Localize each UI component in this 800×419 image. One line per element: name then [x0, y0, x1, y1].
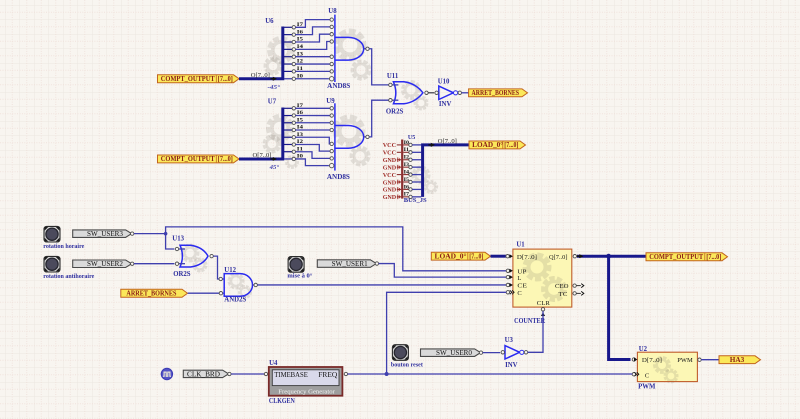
svg-text:[7...0]: [7...0] — [218, 156, 233, 163]
U7 tap I7 — [284, 103, 304, 110]
port SW_USER1 — [317, 260, 376, 268]
port LOAD_0[7..0] (output) — [469, 141, 526, 149]
pwm block U2 — [632, 346, 701, 382]
svg-text:CLR: CLR — [537, 300, 551, 307]
counter U1 — [506, 241, 584, 316]
power net VCC at U5 pin I1 — [383, 150, 402, 157]
bus O[7..0] from U5 to LOAD_0 port — [423, 143, 469, 197]
bus O[7..0] from lower COMPT_OUTPUT port to U7 — [239, 108, 283, 162]
wire U7 I3 to U9 pin 5 — [296, 137, 331, 144]
svg-text:VCC: VCC — [383, 142, 397, 149]
svg-text:[7...0]: [7...0] — [218, 76, 233, 83]
svg-text:ARRET_BORNES: ARRET_BORNES — [126, 291, 176, 298]
push button rotation antihoraire — [44, 256, 60, 272]
wire U4 FREQ output to U2 C and counter C — [344, 372, 632, 375]
svg-text:CEO: CEO — [555, 283, 569, 290]
wire U7 I4 to U9 pin 4 — [296, 129, 331, 131]
wire U9 output to U11 input B — [369, 100, 389, 137]
port SW_USER3 — [73, 230, 132, 238]
port SW_USER0 — [421, 349, 481, 357]
U6 tap I1 — [284, 66, 304, 73]
port COMPT_OUTPUT[7..0] (output, right) — [646, 253, 728, 261]
counter U1 body fill — [513, 249, 572, 307]
svg-text:AND8S: AND8S — [327, 174, 350, 181]
push button rotation horaire — [44, 226, 60, 242]
svg-text:INV: INV — [505, 362, 518, 369]
power net VCC at U5 pin I0 — [383, 142, 402, 149]
svg-text:U9: U9 — [326, 98, 335, 105]
U5 pin I5 — [403, 177, 421, 184]
bus counter Q to COMPT_OUTPUT port and down to U2 — [577, 254, 646, 360]
power net VCC at U5 pin I4 — [383, 172, 402, 179]
svg-text:bouton reset: bouton reset — [391, 361, 424, 368]
svg-text:mise à 0°: mise à 0° — [287, 272, 312, 279]
svg-text:U10: U10 — [438, 78, 450, 85]
port CLK_BRD — [183, 370, 228, 378]
U7 tap I3 — [284, 132, 304, 139]
watermark gears behind U11 — [401, 80, 429, 111]
power net GND at U5 pin I5 — [383, 179, 402, 186]
U7 tap I5 — [284, 117, 304, 124]
svg-text:D[7..0]: D[7..0] — [517, 254, 537, 261]
svg-text:GND: GND — [383, 194, 397, 201]
and gate U8 AND8S — [327, 8, 369, 90]
frequency generator U4 CLKGEN — [269, 360, 343, 396]
watermark gears behind U8 — [334, 29, 372, 81]
svg-text:COMPT_OUTPUT: COMPT_OUTPUT — [649, 254, 703, 261]
wire U6 I6 to U8 pin 2 — [296, 27, 331, 35]
bus O[7..0] from upper COMPT_OUTPUT port to U6 — [239, 27, 283, 81]
svg-text:Q[7..0]: Q[7..0] — [549, 254, 568, 261]
U6 tap I4 — [284, 44, 304, 51]
svg-text:U7: U7 — [268, 99, 277, 106]
pwm U2 body fill — [637, 352, 697, 381]
svg-text:U13: U13 — [172, 236, 184, 243]
U6 tap I6 — [284, 29, 304, 36]
svg-text:U1: U1 — [516, 241, 525, 248]
wire U10 output to ARRET_BORNES port — [462, 92, 469, 94]
svg-text:O[7..0]: O[7..0] — [251, 72, 270, 79]
power net GND at U5 pin I6 — [383, 187, 402, 194]
wire U6 I7 to U8 pin 1 — [296, 20, 331, 28]
wire U6 I1 to U8 pin 7 — [296, 70, 331, 72]
port COMPT_OUTPUT[7..0] lower-left — [158, 155, 240, 163]
svg-text:OR2S: OR2S — [173, 271, 191, 278]
svg-text:GND: GND — [383, 157, 397, 164]
U5 pin I1 — [403, 147, 421, 154]
svg-text:AND8S: AND8S — [327, 83, 350, 90]
or gate U13 OR2S — [172, 236, 213, 278]
junction SW_USER3 — [164, 232, 168, 236]
watermark gears behind U12 — [228, 273, 253, 300]
U7 tap I4 — [284, 125, 304, 132]
port SW_USER2 — [73, 260, 132, 268]
inverter U10 INV — [435, 78, 462, 108]
svg-text:CLKGEN: CLKGEN — [269, 398, 295, 405]
svg-text:rotation horaire: rotation horaire — [43, 243, 84, 250]
wire U12 output to counter CE — [257, 284, 506, 286]
wire U7 I5 to U9 pin 3 — [296, 122, 331, 124]
svg-text:LOAD_0°: LOAD_0° — [435, 253, 467, 260]
svg-text:U2: U2 — [639, 346, 648, 353]
wire junction to counter UP (long) — [166, 227, 507, 271]
port ARRET_BORNES (output) — [469, 89, 528, 97]
svg-text:Frequency Generator: Frequency Generator — [278, 389, 335, 396]
svg-text:U11: U11 — [387, 73, 399, 80]
svg-text:GND: GND — [383, 187, 397, 194]
svg-text:C: C — [645, 372, 649, 379]
push button mise a 0 — [288, 257, 304, 273]
U5 pin I0 — [403, 140, 421, 147]
watermark gears behind U13 — [181, 244, 208, 273]
svg-text:I3: I3 — [404, 162, 410, 168]
wire U13 output to U12 input A — [213, 256, 219, 279]
wire U7 I0 to U9 pin 8 — [296, 159, 329, 166]
U5 pin I4 — [403, 169, 421, 176]
wire junction up to counter C — [387, 292, 507, 374]
port LOAD_0[7..0] (input to counter) — [431, 252, 490, 260]
wire CLK_BRD to U4 TIMEBASE — [228, 372, 268, 375]
U12 input A pin — [219, 277, 224, 280]
watermark gears behind U5 — [412, 166, 439, 195]
wire U6 I5 to U8 pin 3 — [296, 34, 331, 42]
svg-text:L: L — [517, 275, 521, 282]
U6 tap I7 — [284, 22, 304, 29]
svg-text:ARRET_BORNES: ARRET_BORNES — [472, 90, 520, 97]
svg-text:[7...0]: [7...0] — [504, 142, 518, 149]
svg-text:U6: U6 — [265, 18, 274, 25]
wire U8 output to U11 input A — [369, 49, 389, 85]
U7 tap I1 — [284, 146, 304, 153]
svg-text:PWM: PWM — [638, 384, 656, 391]
wire U7 I2 to U9 pin 6 — [296, 144, 331, 151]
U5 pin I7 — [403, 192, 421, 199]
svg-text:O[7..0]: O[7..0] — [253, 152, 272, 159]
svg-text:FREQ: FREQ — [318, 371, 337, 379]
wire U6 I0 to U8 pin 8 — [296, 78, 329, 80]
svg-text:-45°: -45° — [268, 84, 281, 91]
svg-text:GND: GND — [383, 179, 397, 186]
svg-text:I1: I1 — [404, 147, 410, 153]
wire U7 I6 to U9 pin 2 — [296, 115, 331, 117]
clock source icon — [161, 368, 172, 379]
svg-text:U3: U3 — [505, 337, 514, 344]
U5 pin I3 — [403, 162, 421, 169]
svg-text:COUNTER: COUNTER — [514, 318, 545, 325]
svg-text:TIMEBASE: TIMEBASE — [274, 371, 308, 379]
U7 tap I2 — [284, 139, 304, 146]
svg-text:I6: I6 — [404, 184, 410, 190]
svg-text:U5: U5 — [408, 135, 415, 141]
svg-text:HA3: HA3 — [730, 357, 745, 364]
svg-text:I4: I4 — [404, 169, 410, 175]
svg-text:CLK_BRD: CLK_BRD — [187, 370, 220, 378]
watermark gears near U6 — [264, 36, 296, 76]
svg-text:I7: I7 — [404, 192, 410, 198]
svg-text:COMPT_OUTPUT: COMPT_OUTPUT — [161, 156, 215, 163]
bus joiner U5 BUS_JS bar — [401, 140, 403, 199]
svg-text:I2: I2 — [404, 155, 410, 161]
or gate U11 OR2S — [386, 73, 428, 115]
wire SW_USER0 to U3 — [479, 351, 500, 354]
svg-text:U4: U4 — [269, 360, 278, 367]
U6 tap I0 — [284, 73, 304, 80]
svg-text:OR2S: OR2S — [386, 108, 404, 115]
wire junction down to U13 input A — [166, 234, 175, 249]
wire U3 output to counter CLR — [528, 311, 543, 352]
svg-text:CE: CE — [517, 282, 527, 289]
wire U6 I4 to U8 pin 4 — [296, 42, 331, 50]
wire U2 PWM output to HA3 port — [701, 359, 719, 361]
svg-text:GND: GND — [383, 164, 397, 171]
watermark gears inside U1 — [523, 253, 567, 303]
wire SW_USER1 to counter L — [375, 262, 506, 277]
wire SW_USER3 to junction — [131, 232, 166, 235]
svg-text:PWM: PWM — [677, 357, 693, 364]
svg-text:I0: I0 — [404, 140, 410, 146]
svg-text:D[7..0]: D[7..0] — [642, 357, 662, 364]
svg-text:VCC: VCC — [383, 172, 397, 179]
U5 pin I6 — [403, 184, 421, 191]
inverter U3 INV — [501, 337, 528, 369]
svg-text:BUS_JS: BUS_JS — [404, 197, 427, 204]
svg-text:SW_USER3: SW_USER3 — [87, 230, 123, 238]
svg-text:COMPT_OUTPUT: COMPT_OUTPUT — [161, 76, 215, 83]
U5 pin I2 — [403, 155, 421, 162]
port HA3 — [719, 356, 761, 364]
svg-text:C: C — [517, 290, 521, 297]
junction FREQ net — [385, 372, 389, 376]
port COMPT_OUTPUT[7..0] upper-left — [158, 75, 240, 83]
wire U7 I1 to U9 pin 7 — [296, 152, 331, 159]
wire U6 I3 to U8 pin 5 — [296, 56, 331, 58]
push button bouton reset — [392, 345, 408, 361]
U6 tap I2 — [284, 59, 304, 66]
svg-text:O[7..0]: O[7..0] — [438, 138, 457, 145]
and gate U12 AND2S — [224, 267, 257, 303]
U7 tap I0 — [284, 154, 304, 161]
power net GND at U5 pin I7 — [383, 194, 402, 201]
svg-text:SW_USER0: SW_USER0 — [436, 349, 472, 357]
wire SW_USER2 to U13 input B — [131, 262, 175, 265]
wire U7 I7 to U9 pin 1 — [296, 107, 331, 109]
svg-text:AND2S: AND2S — [224, 296, 246, 303]
watermark gears near U7 — [263, 114, 295, 153]
and gate U9 AND8S — [326, 98, 369, 181]
port ARRET_BORNES (input) — [121, 289, 188, 297]
svg-text:VCC: VCC — [383, 150, 397, 157]
svg-text:[7...0]: [7...0] — [469, 253, 483, 260]
U6 tap I5 — [284, 37, 304, 44]
svg-text:LOAD_0°: LOAD_0° — [472, 142, 503, 149]
U7 tap I6 — [284, 110, 304, 117]
wire U6 I2 to U8 pin 6 — [296, 63, 331, 65]
watermark gears inside U2 — [653, 356, 679, 384]
svg-text:SW_USER2: SW_USER2 — [87, 260, 123, 268]
power net GND at U5 pin I3 — [383, 164, 402, 171]
power net GND at U5 pin I2 — [383, 157, 402, 164]
svg-text:I5: I5 — [404, 177, 410, 183]
watermark gear below U9 — [285, 155, 299, 169]
wire U11 output to U10 input — [428, 92, 434, 94]
watermark gears behind U9 — [333, 115, 371, 167]
svg-text:SW_USER1: SW_USER1 — [332, 260, 368, 268]
svg-text:rotation antihoraire: rotation antihoraire — [43, 273, 94, 280]
svg-text:U8: U8 — [328, 8, 337, 15]
U6 tap I3 — [284, 51, 304, 58]
bus LOAD_0 to counter D — [491, 255, 506, 258]
svg-text:INV: INV — [439, 101, 452, 108]
svg-text:45°: 45° — [269, 164, 280, 171]
svg-text:TC: TC — [559, 291, 568, 298]
svg-text:U12: U12 — [224, 267, 236, 274]
svg-text:[7...0]: [7...0] — [706, 254, 721, 261]
wire ARRET_BORNES to U12 input B — [188, 292, 225, 295]
